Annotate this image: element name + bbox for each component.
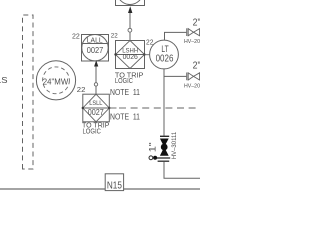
drain connection with plug xyxy=(149,156,170,160)
label TO TRIP LOGIC (LSLL) xyxy=(82,121,110,136)
svg-text:NOTE 11: NOTE 11 xyxy=(110,112,140,122)
valve HV-30111 (closed globe valve) xyxy=(158,136,170,161)
label HV-30111 (rotated) xyxy=(171,131,178,159)
wire LSHH to top instrument with arrow xyxy=(128,6,132,40)
svg-text:22: 22 xyxy=(111,33,118,40)
node LS label (clipped at left edge) xyxy=(0,76,8,85)
svg-text:N15: N15 xyxy=(107,180,122,191)
svg-text:0027: 0027 xyxy=(87,45,104,55)
valve HV-20xx (upper) xyxy=(187,28,200,36)
wire below valve to right edge xyxy=(164,162,200,179)
switch LSHH 0026 xyxy=(114,41,145,69)
svg-text:2": 2" xyxy=(193,18,200,29)
wire LSLL to LALL with arrow xyxy=(94,60,98,95)
label NOTE 11 (upper) xyxy=(110,87,140,97)
note label 22 (near LSLL) xyxy=(77,85,86,94)
label HV-20 (lower valve) xyxy=(184,83,200,89)
svg-text:24"MW: 24"MW xyxy=(43,77,69,87)
instrument top (clipped at top edge) xyxy=(116,0,145,6)
svg-text:2": 2" xyxy=(193,61,200,72)
note label 22 (near LSHH) xyxy=(111,33,118,40)
label 1" (rotated) xyxy=(147,142,157,152)
wire dashed signal from LSLL to right edge xyxy=(109,107,200,109)
label NOTE 11 (lower) xyxy=(110,112,140,122)
label TO TRIP LOGIC (LSHH) xyxy=(115,70,144,85)
svg-text:LT: LT xyxy=(161,43,168,54)
svg-text:LS: LS xyxy=(0,76,8,85)
label 2" (lower valve) xyxy=(193,61,201,72)
svg-text:NOTE 11: NOTE 11 xyxy=(110,87,140,97)
svg-text:LALL: LALL xyxy=(87,36,103,45)
alarm LALL 0027 xyxy=(82,35,109,62)
svg-text:0026: 0026 xyxy=(156,54,174,65)
note label 22 (near LALL) xyxy=(72,32,80,41)
svg-text:HV–30111: HV–30111 xyxy=(171,131,178,159)
svg-text:22: 22 xyxy=(77,85,86,94)
manway nozzle 24"MW xyxy=(36,61,75,100)
svg-text:0027: 0027 xyxy=(88,107,104,117)
nozzle box N15 xyxy=(105,174,123,192)
wire LT top to valve HV (upper) xyxy=(165,32,187,40)
svg-text:HV–20: HV–20 xyxy=(184,39,200,45)
svg-text:LOGIC: LOGIC xyxy=(83,127,101,136)
vessel shell line xyxy=(0,188,200,190)
label HV-20 (upper valve) xyxy=(184,39,200,45)
valve HV-20xx (lower) xyxy=(187,73,200,81)
wire LSHH to LT xyxy=(145,54,151,56)
svg-text:1": 1" xyxy=(147,142,157,152)
switch LSLL 0027 xyxy=(82,94,111,122)
wire LT bottom down and tee to valve HV (lower) xyxy=(164,69,186,136)
svg-text:0026: 0026 xyxy=(123,52,138,61)
equipment dashed enclosure xyxy=(23,15,34,169)
svg-text:22: 22 xyxy=(72,32,80,41)
svg-text:LSLL: LSLL xyxy=(89,100,102,107)
svg-text:LOGIC: LOGIC xyxy=(115,76,133,85)
svg-text:HV–20: HV–20 xyxy=(184,83,200,89)
note label 22 (near LT) xyxy=(146,39,153,46)
transmitter LT 0026 xyxy=(150,40,179,69)
label 2" (upper valve) xyxy=(193,18,201,29)
